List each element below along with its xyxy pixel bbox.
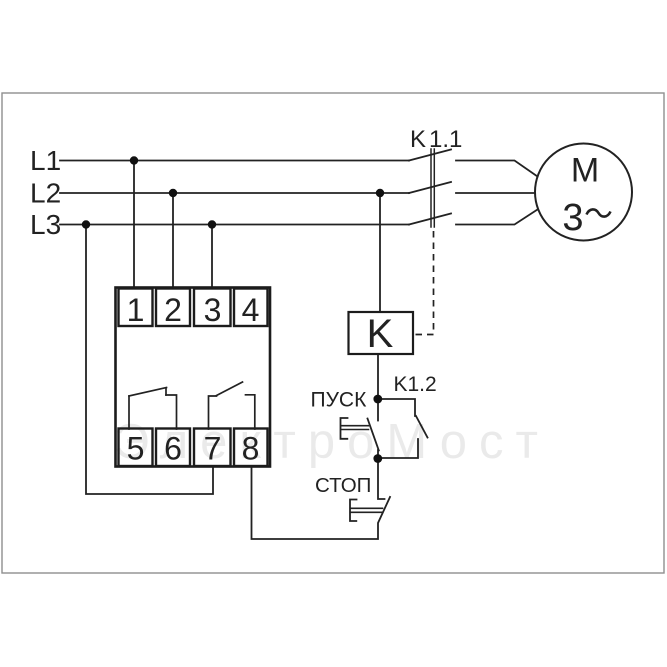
svg-text:4: 4	[242, 292, 260, 328]
svg-text:СТОП: СТОП	[315, 474, 371, 497]
svg-text:1: 1	[127, 292, 145, 328]
svg-text:L1: L1	[30, 145, 61, 176]
svg-text:M: M	[571, 152, 599, 190]
svg-text:L3: L3	[30, 209, 61, 240]
svg-text:K: K	[367, 312, 394, 356]
svg-text:ЭлектроМост: ЭлектроМост	[114, 415, 550, 469]
svg-text:K1.2: K1.2	[394, 373, 437, 396]
svg-text:L2: L2	[30, 178, 61, 209]
svg-text:ПУСК: ПУСК	[311, 389, 368, 412]
svg-text:K: K	[410, 126, 426, 153]
svg-text:2: 2	[164, 292, 182, 328]
svg-text:1.1: 1.1	[429, 126, 462, 153]
svg-text:3: 3	[562, 197, 583, 239]
svg-text:3: 3	[204, 292, 222, 328]
